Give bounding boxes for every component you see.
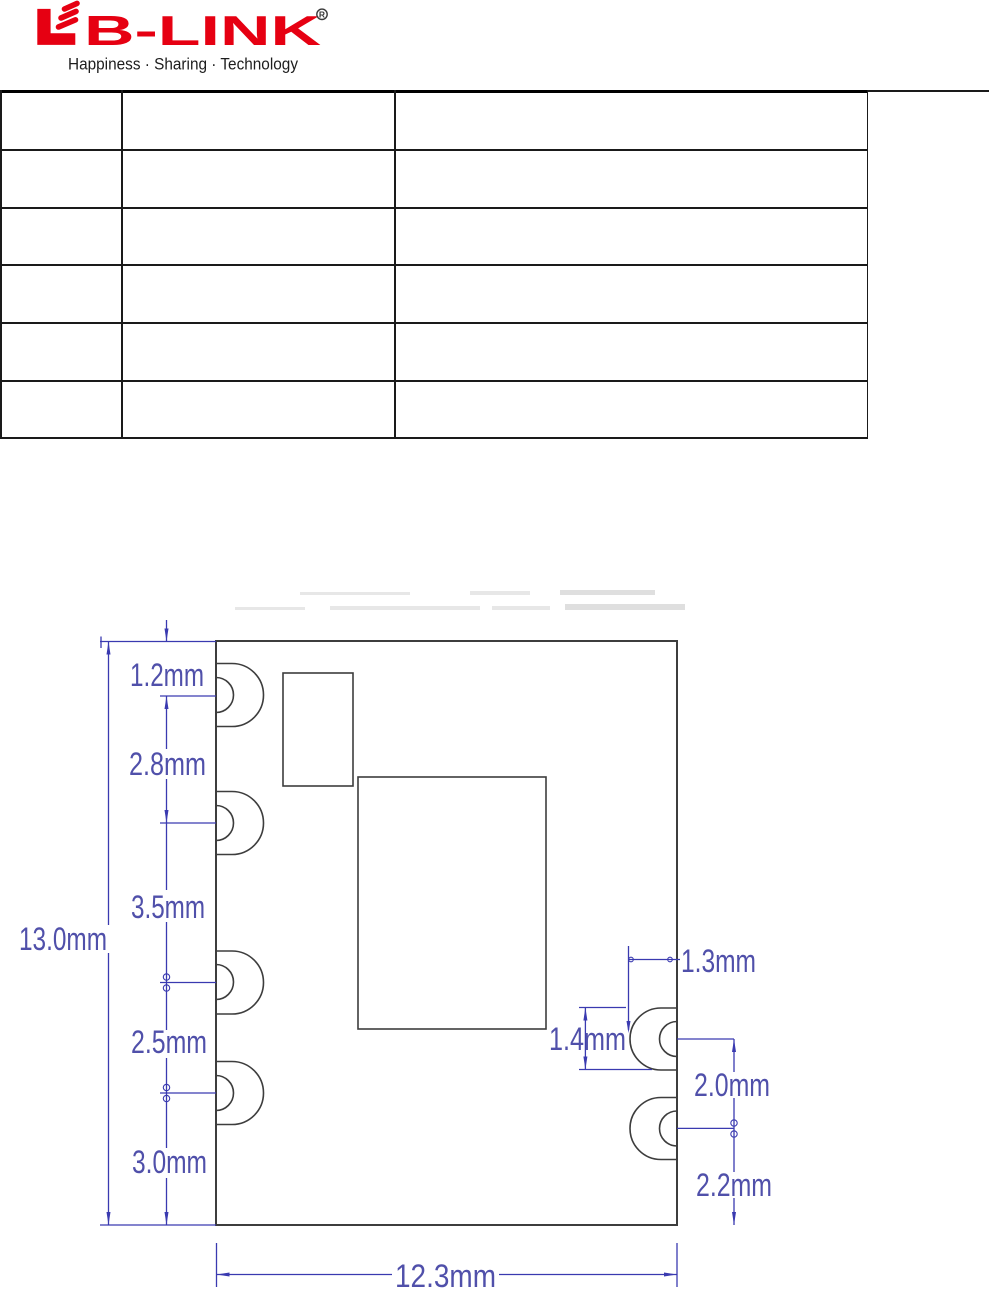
svg-text:13.0mm: 13.0mm: [19, 921, 107, 957]
svg-text:2.2mm: 2.2mm: [696, 1167, 772, 1203]
svg-text:1.4mm: 1.4mm: [549, 1021, 626, 1057]
svg-text:2.5mm: 2.5mm: [131, 1024, 207, 1060]
svg-text:1.3mm: 1.3mm: [681, 943, 756, 979]
svg-text:Happiness · Sharing · Technolo: Happiness · Sharing · Technology: [68, 55, 298, 74]
svg-text:3.5mm: 3.5mm: [131, 889, 205, 925]
svg-text:2.8mm: 2.8mm: [129, 746, 206, 782]
svg-text:B-LINK: B-LINK: [84, 7, 321, 54]
svg-text:3.0mm: 3.0mm: [132, 1144, 207, 1180]
svg-text:2.0mm: 2.0mm: [694, 1067, 770, 1103]
svg-text:R: R: [319, 10, 325, 20]
svg-text:1.2mm: 1.2mm: [130, 657, 204, 693]
svg-text:12.3mm: 12.3mm: [395, 1258, 496, 1294]
